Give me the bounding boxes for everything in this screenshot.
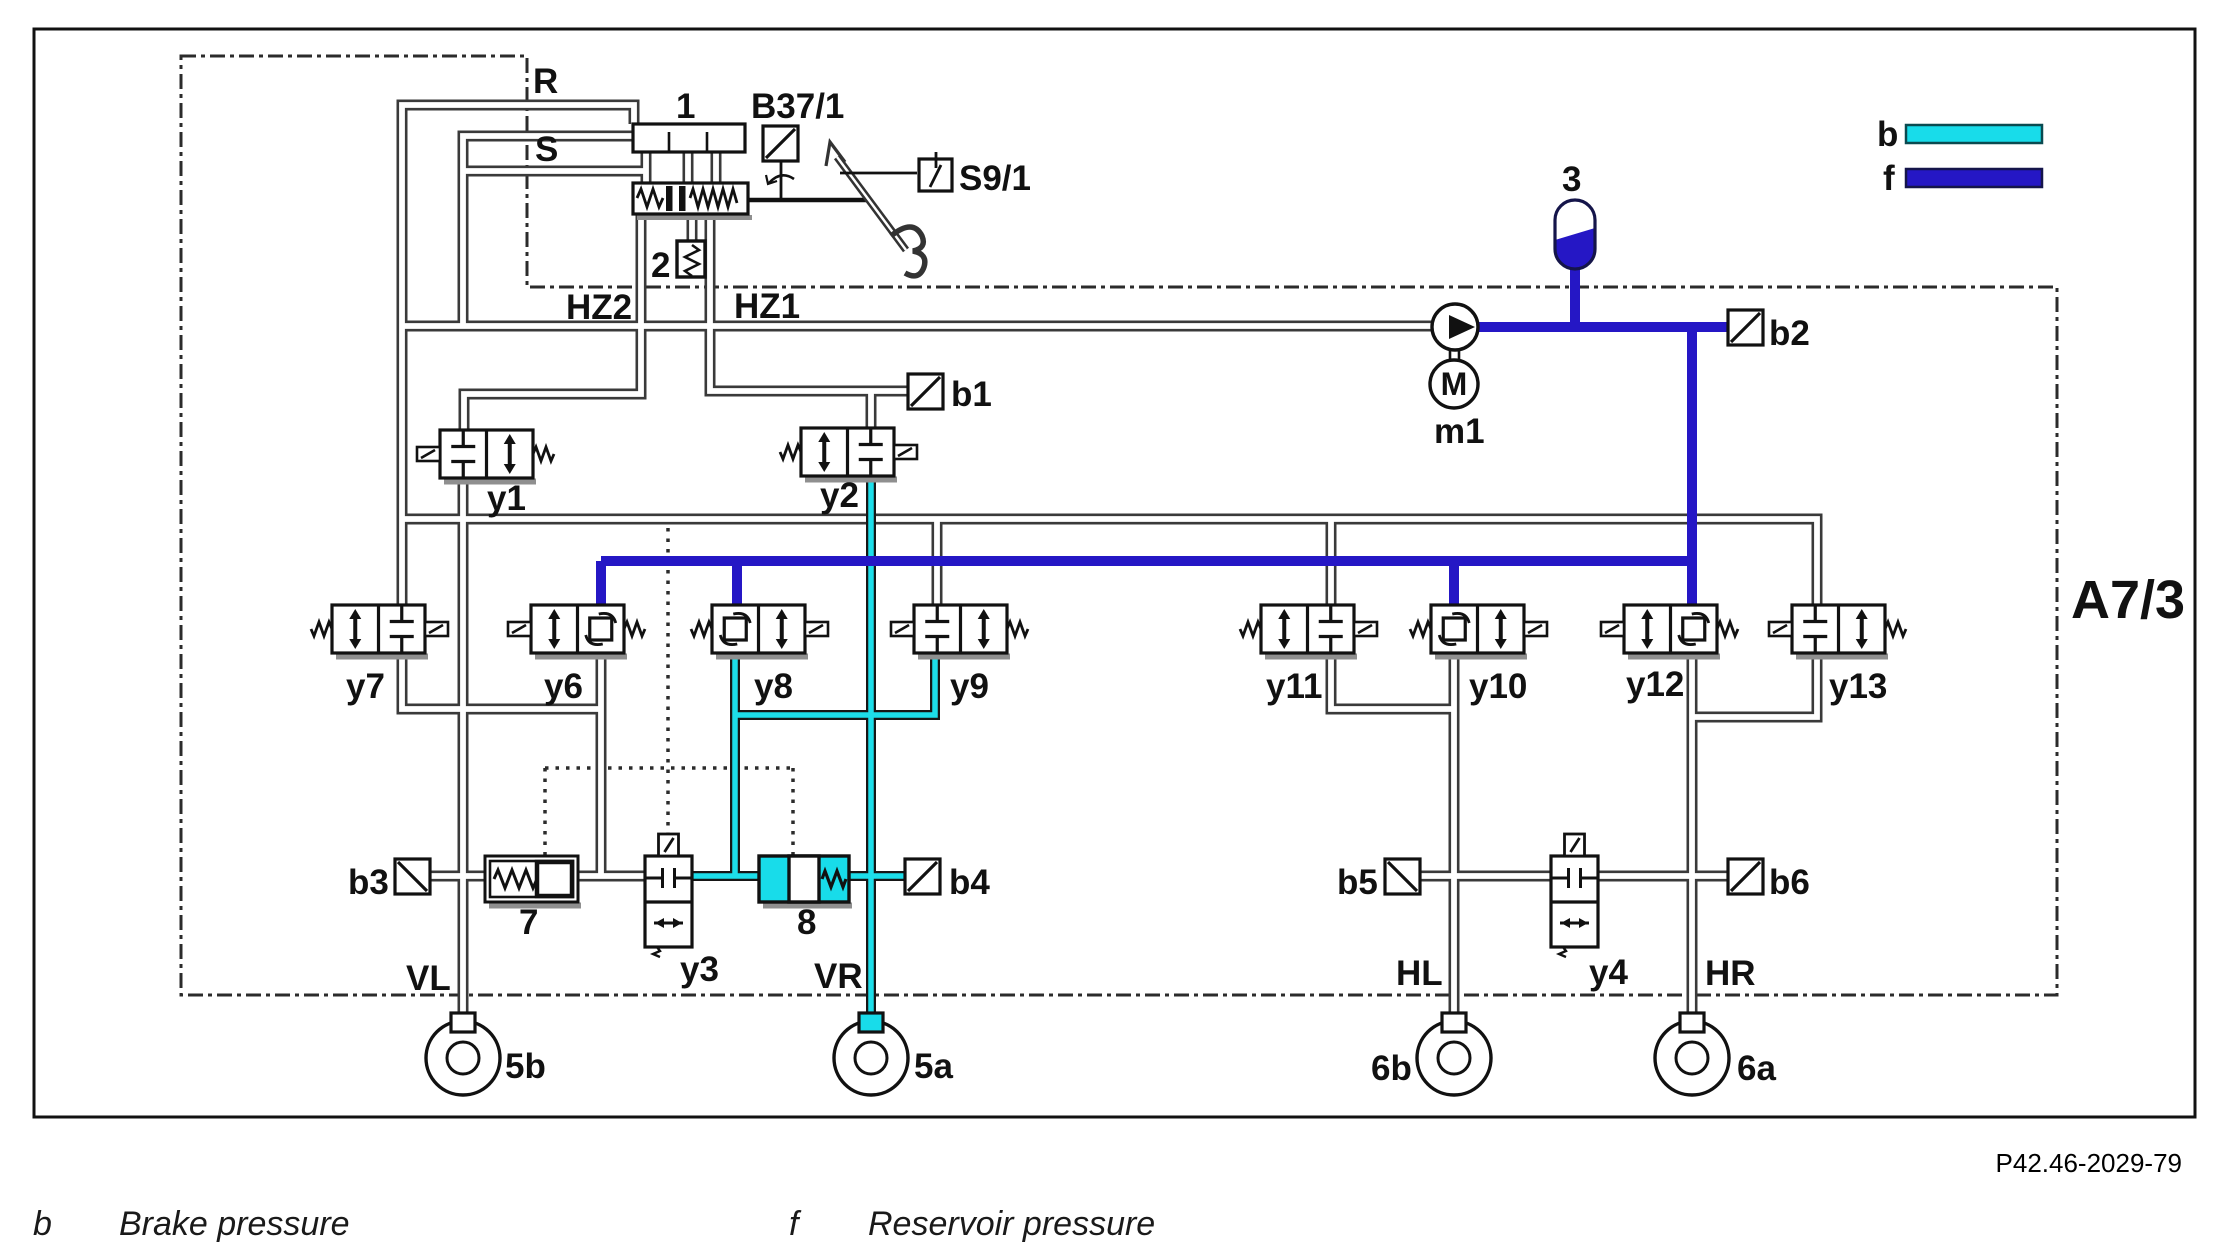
svg-text:3: 3: [1562, 160, 1581, 199]
reservoir 1: [633, 124, 745, 152]
wire valve y12 bottom down to wheel 6a: [1687, 653, 1698, 1014]
solenoid valve y4: [1551, 834, 1598, 957]
wire lower row left b3 to valve y3: [430, 871, 645, 882]
svg-text:y13: y13: [1829, 667, 1887, 706]
wheel 5b: [426, 1013, 500, 1095]
wire blue drop to valve y10: [1449, 561, 1459, 605]
wire valve y10 bottom down to wheel 6b: [1449, 653, 1460, 1014]
svg-text:y2: y2: [820, 476, 859, 515]
svg-text:b1: b1: [951, 375, 992, 414]
wire blue drop to valve y6: [596, 561, 606, 605]
wire VL trunk from valve y1 down to wheel 5b: [458, 478, 469, 1014]
wire valve y7 bottom link: [402, 653, 601, 709]
svg-text:y4: y4: [1589, 953, 1628, 992]
svg-text:b: b: [33, 1205, 52, 1243]
accumulator 3: [1555, 200, 1595, 269]
valve y13: [1769, 605, 1906, 657]
svg-text:b4: b4: [949, 863, 990, 902]
svg-text:y10: y10: [1469, 667, 1527, 706]
svg-text:y8: y8: [754, 667, 793, 706]
component 8 modulator: [759, 856, 852, 906]
svg-text:6a: 6a: [1737, 1049, 1776, 1088]
valve y7: [311, 605, 448, 657]
wire blue f vertical rail: [1687, 327, 1697, 605]
wire blue pump outlet to sensor b2: [1444, 322, 1728, 332]
valve y12: [1601, 605, 1738, 657]
svg-text:y9: y9: [950, 667, 989, 706]
svg-text:HL: HL: [1396, 954, 1443, 993]
svg-text:5a: 5a: [914, 1047, 953, 1086]
wire reservoir stub mid: [683, 152, 694, 183]
wire main gray bus rail to valve y13: [402, 519, 1817, 605]
pressure sensor b3: [395, 859, 430, 894]
svg-text:7: 7: [519, 903, 538, 942]
wire S line from reservoir down to pump suction: [463, 136, 633, 326]
svg-text:b3: b3: [348, 863, 389, 902]
dotted control line vertical to valve y3 solenoid: [666, 528, 670, 835]
dotted control line down to component 7: [543, 768, 547, 858]
wheel 6a: [1655, 1013, 1729, 1095]
wire blue f horizontal rail: [601, 556, 1692, 566]
svg-text:5b: 5b: [505, 1047, 546, 1086]
svg-text:HR: HR: [1705, 954, 1756, 993]
valve y11: [1240, 605, 1377, 657]
svg-text:HZ2: HZ2: [566, 288, 632, 327]
sensor B37/1: [763, 126, 798, 199]
wire R line from reservoir to left rail down to valve y7: [402, 105, 634, 605]
wire feed to valve y2: [866, 391, 877, 428]
wire valve y6 bottom down to lower row: [596, 653, 607, 876]
valve y8: [691, 605, 828, 657]
spring 2: [677, 241, 705, 277]
pressure sensor b5: [1385, 859, 1420, 894]
brake pedal: [826, 142, 925, 276]
master cylinder body: [633, 183, 752, 218]
svg-text:y6: y6: [544, 667, 583, 706]
legend bar f (blue): [1906, 169, 2042, 187]
svg-text:2: 2: [651, 246, 670, 285]
component 7 pressure valve: [485, 856, 581, 906]
valve y10: [1410, 605, 1547, 657]
wire cyan valve y9 bottom link: [735, 653, 935, 715]
wire valve y13 bottom link: [1692, 653, 1817, 717]
svg-text:b: b: [1877, 115, 1898, 154]
dotted control line down to component 8: [791, 768, 795, 856]
solenoid valve y3: [645, 834, 692, 957]
svg-text:6b: 6b: [1371, 1049, 1412, 1088]
wire bus drop to valve y9: [932, 519, 943, 605]
svg-text:b2: b2: [1769, 314, 1810, 353]
svg-text:8: 8: [797, 903, 816, 942]
switch S9/1: [840, 152, 952, 191]
legend bar b (cyan): [1906, 125, 2042, 143]
svg-text:M: M: [1441, 366, 1468, 402]
wire HZ2 from master cylinder to valve y1: [464, 214, 641, 430]
reservoir pressure blue lines: [601, 258, 1728, 605]
valve y9: [891, 605, 1028, 657]
svg-text:HZ1: HZ1: [734, 287, 800, 326]
svg-text:B37/1: B37/1: [751, 87, 844, 126]
wire cyan lower row valve y3 to sensor b4: [692, 871, 905, 881]
wire reservoir stub left: [641, 152, 652, 183]
pressure sensor b6: [1728, 859, 1763, 894]
A7/3 unit dash-dot boundary: [181, 56, 2057, 995]
wire S branch to master cylinder port: [463, 166, 646, 177]
svg-text:S9/1: S9/1: [959, 159, 1031, 198]
svg-text:y11: y11: [1266, 667, 1322, 706]
svg-text:y3: y3: [680, 950, 719, 989]
dotted control line horizontal: [545, 766, 793, 770]
motor m1: [1430, 350, 1478, 408]
svg-text:VR: VR: [814, 957, 863, 996]
wire blue drop to valve y8: [732, 561, 742, 605]
svg-text:1: 1: [676, 87, 695, 126]
wire cyan VR trunk from valve y2 to wheel 5a: [866, 474, 876, 1014]
svg-text:VL: VL: [406, 959, 451, 998]
valve y1: [417, 430, 554, 482]
svg-text:m1: m1: [1434, 412, 1485, 451]
svg-text:S: S: [535, 130, 558, 169]
pressure sensor b2: [1728, 310, 1763, 345]
svg-text:Brake pressure: Brake pressure: [119, 1205, 350, 1243]
wire master cylinder to spring 2: [687, 214, 698, 241]
svg-text:b6: b6: [1769, 863, 1810, 902]
wire valve y11 bottom link: [1331, 653, 1454, 709]
svg-text:b5: b5: [1337, 863, 1378, 902]
pump: [1432, 304, 1478, 350]
svg-text:A7/3: A7/3: [2071, 570, 2185, 630]
svg-text:f: f: [1883, 159, 1895, 198]
wire lower row right b5 to b6: [1420, 871, 1728, 882]
wire bus drop to valve y11: [1326, 519, 1337, 605]
pressure sensor b4: [905, 859, 940, 894]
svg-text:P42.46-2029-79: P42.46-2029-79: [1996, 1148, 2182, 1178]
svg-text:R: R: [533, 62, 558, 101]
svg-text:Reservoir pressure: Reservoir pressure: [868, 1205, 1155, 1243]
wire reservoir stub right: [711, 152, 722, 183]
pushrod: [748, 198, 869, 203]
svg-text:y1: y1: [487, 479, 526, 518]
wire pump suction line: [402, 321, 1433, 332]
pressure sensor b1: [908, 374, 943, 409]
brake pressure cyan lines: [692, 474, 935, 1014]
valve y2: [780, 428, 917, 480]
wire cyan valve y8 bottom drop: [730, 653, 740, 876]
wire HZ1 from master cylinder to sensor b1: [710, 214, 908, 391]
wheel 5a: [834, 1013, 908, 1095]
wheel 6b: [1417, 1013, 1491, 1095]
wire blue accumulator stem: [1570, 258, 1580, 327]
svg-text:y12: y12: [1626, 665, 1684, 704]
valve y6: [508, 605, 645, 657]
svg-text:y7: y7: [346, 667, 385, 706]
